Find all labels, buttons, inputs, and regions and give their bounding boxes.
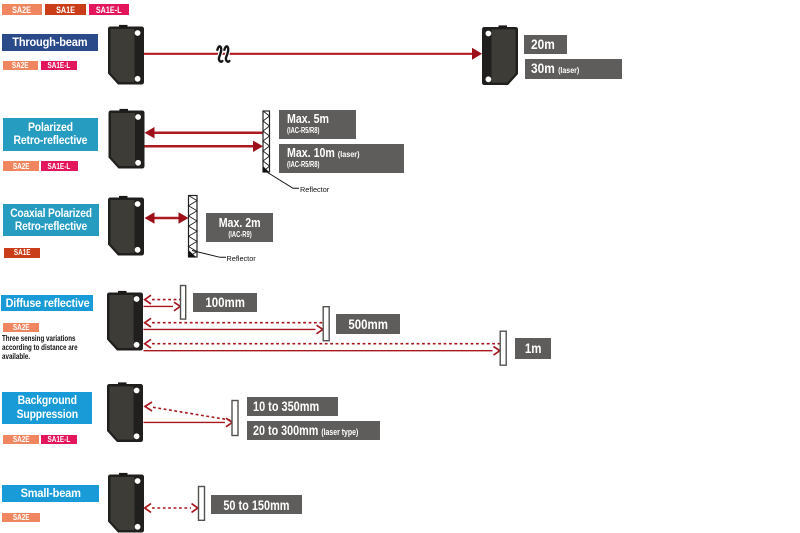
- target bar 100mm: [181, 286, 186, 320]
- reflector (polarized): [263, 111, 270, 172]
- beam return dashed 500mm: [145, 318, 323, 327]
- label Through-beam: [2, 34, 98, 51]
- sensor receiver (through-beam): [482, 25, 518, 85]
- sensor (coaxial): [108, 196, 144, 256]
- value box Max. 2m (IAC-R9): [206, 213, 273, 242]
- tag SA2E (top legend): [2, 4, 43, 15]
- tag SA2E (small-beam): [2, 513, 40, 522]
- value box Max. 10m (laser) (IAC-R5/R8): [279, 144, 404, 173]
- beam double dashed arrow (small-beam): [145, 504, 198, 513]
- tag SA1E (top legend): [45, 4, 86, 15]
- text Reflector (polarized): [300, 185, 329, 194]
- sensor (background suppression): [107, 382, 143, 442]
- value box 500mm: [336, 314, 399, 334]
- sensor (diffuse): [107, 291, 143, 351]
- tag SA2E (background): [3, 435, 39, 444]
- value box Max. 5m (IAC-R5/R8): [279, 110, 356, 139]
- sensor (polarized retro-reflective): [109, 109, 145, 169]
- note three sensing variations: [2, 334, 96, 361]
- label Coaxial Polarized Retro-reflective: [3, 204, 99, 236]
- label Polarized Retro-reflective: [3, 118, 98, 151]
- beam return dashed 100mm: [145, 295, 180, 304]
- tag SA1E-L (through-beam): [41, 61, 77, 70]
- beam return (polarized): [145, 127, 264, 138]
- target bar (background): [232, 401, 238, 436]
- leader line reflector (coaxial): [192, 251, 226, 258]
- target bar (small-beam): [199, 487, 205, 521]
- value box 1m: [515, 338, 551, 358]
- beam double arrow (coaxial): [145, 212, 189, 223]
- label Small-beam: [2, 485, 99, 503]
- value box 20m: [524, 35, 567, 54]
- leader line reflector (polarized): [266, 172, 299, 189]
- wire beam through-beam: [144, 48, 482, 60]
- beam return dashed 1m: [145, 339, 500, 348]
- sensor (small-beam): [108, 473, 144, 533]
- value box 20 to 300mm (laser type): [247, 421, 381, 441]
- reflector (coaxial): [189, 196, 198, 258]
- label Background Suppression: [2, 392, 92, 424]
- tag SA1E (coaxial): [4, 248, 41, 258]
- tag SA1E-L (polarized): [41, 161, 78, 171]
- break squiggle: [217, 46, 229, 61]
- tag SA2E (diffuse): [3, 323, 39, 332]
- tag SA2E (through-beam): [3, 61, 39, 70]
- tag SA1E-L (top legend): [89, 4, 129, 15]
- value box 100mm: [193, 293, 257, 312]
- value box 10 to 350mm: [247, 397, 339, 416]
- value box 50 to 150mm: [211, 495, 302, 514]
- tag SA1E-L (background): [41, 435, 77, 444]
- tag SA2E (polarized): [3, 161, 39, 171]
- beam emit (polarized): [145, 141, 264, 152]
- target bar 500mm: [323, 307, 329, 341]
- beam emit solid 1m: [144, 347, 500, 356]
- target bar 1m: [500, 331, 506, 365]
- beam return dashed diagonal (background): [145, 402, 232, 420]
- beam emit solid 500mm: [144, 325, 323, 334]
- sensor emitter (through-beam): [108, 25, 144, 85]
- label Diffuse reflective: [1, 295, 93, 312]
- beam emit solid 100mm: [144, 302, 181, 311]
- text Reflector (coaxial): [227, 254, 256, 263]
- value box 30m (laser): [525, 59, 623, 79]
- beam emit solid (background): [144, 418, 233, 427]
